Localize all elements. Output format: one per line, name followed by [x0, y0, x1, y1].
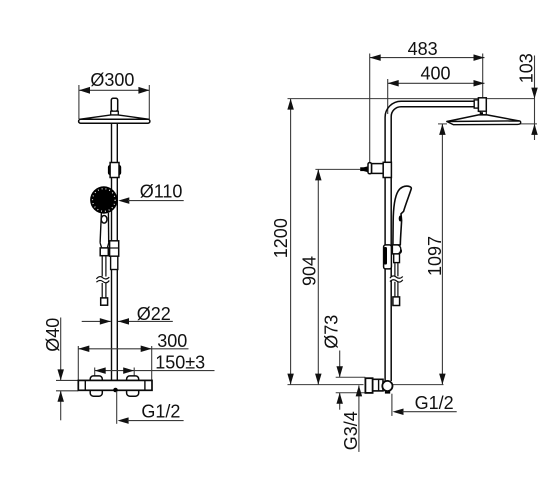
svg-text:G3/4: G3/4: [341, 411, 361, 450]
svg-text:Ø300: Ø300: [90, 70, 134, 90]
svg-text:Ø73: Ø73: [321, 315, 341, 349]
svg-text:483: 483: [408, 39, 438, 59]
svg-text:103: 103: [516, 53, 536, 83]
svg-text:G1/2: G1/2: [141, 401, 180, 421]
svg-text:300: 300: [157, 331, 187, 351]
svg-text:904: 904: [300, 256, 320, 286]
svg-text:Ø22: Ø22: [137, 304, 171, 324]
svg-text:1097: 1097: [425, 236, 445, 276]
svg-text:Ø110: Ø110: [140, 182, 183, 202]
svg-text:150±3: 150±3: [155, 352, 205, 372]
svg-text:400: 400: [420, 64, 450, 84]
svg-text:1200: 1200: [271, 218, 291, 258]
svg-text:Ø40: Ø40: [43, 318, 63, 352]
svg-text:G1/2: G1/2: [415, 393, 454, 413]
